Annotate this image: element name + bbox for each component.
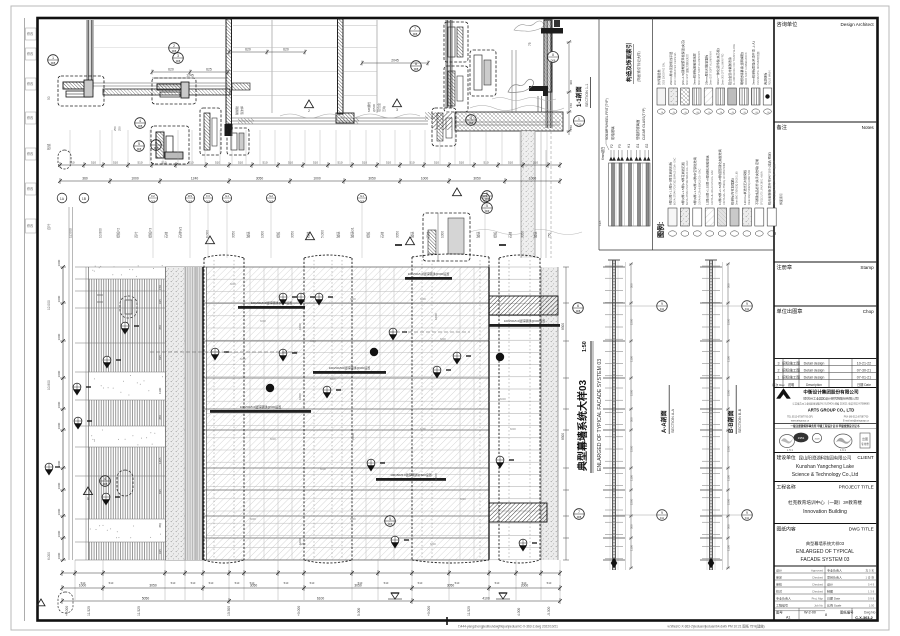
svg-text:8300: 8300 <box>561 433 565 440</box>
svg-text:450: 450 <box>158 523 162 528</box>
svg-text:1000: 1000 <box>57 422 61 429</box>
svg-text:250: 250 <box>118 126 122 131</box>
svg-text:Description: Description <box>806 383 822 387</box>
svg-text:5: 5 <box>87 497 89 501</box>
svg-text:510: 510 <box>455 581 460 585</box>
svg-text:510: 510 <box>113 161 118 165</box>
svg-text:Checked: Checked <box>812 590 823 594</box>
svg-text:比例 Scale: 比例 Scale <box>827 603 842 608</box>
svg-text:D08: D08 <box>206 200 211 203</box>
svg-text:注册章: 注册章 <box>777 263 793 271</box>
svg-text:-0.300: -0.300 <box>547 606 551 616</box>
svg-text:D08: D08 <box>414 68 419 71</box>
svg-text:620: 620 <box>168 68 174 72</box>
svg-text:D08: D08 <box>388 523 393 526</box>
svg-text:1000: 1000 <box>57 259 61 266</box>
svg-text:7: 7 <box>414 27 416 31</box>
svg-text:75: 75 <box>528 42 532 46</box>
svg-text:Omm R6Q 7100G5Q 2A68 TL6S: Omm R6Q 7100G5Q 2A68 TL6S <box>748 170 751 205</box>
svg-text:620: 620 <box>245 48 251 52</box>
svg-text:11.520: 11.520 <box>467 606 471 616</box>
svg-text:1500: 1500 <box>727 498 731 505</box>
svg-text:昆山阳澄湖科技园有限公司: 昆山阳澄湖科技园有限公司 <box>799 455 852 462</box>
svg-text:工程名称: 工程名称 <box>777 484 796 491</box>
svg-text:1: 1 <box>778 375 780 379</box>
svg-text:D08: D08 <box>413 33 418 36</box>
svg-text:1 3 8: 1 3 8 <box>868 590 875 594</box>
svg-text:250: 250 <box>113 126 117 131</box>
svg-text:设计: 设计 <box>827 582 833 587</box>
svg-text:Job No: Job No <box>814 604 823 608</box>
svg-text:G2: G2 <box>645 144 649 148</box>
svg-text:2008: 2008 <box>815 439 821 441</box>
svg-text:500: 500 <box>727 524 731 529</box>
svg-text:2mm KOMASTER CERM WL: 2mm KOMASTER CERM WL <box>674 52 677 85</box>
svg-text:6000: 6000 <box>420 297 426 301</box>
svg-text:D10: D10 <box>577 123 582 127</box>
svg-text:510: 510 <box>69 161 74 165</box>
svg-text:4100: 4100 <box>482 597 490 601</box>
svg-text:Checked: Checked <box>812 576 823 580</box>
svg-text:外饰面层类: 外饰面层类 <box>656 70 661 85</box>
svg-text:审核: 审核 <box>776 582 782 587</box>
svg-text:ALUMIN ACRE FRC TRUSS W-CNE: ALUMIN ACRE FRC TRUSS W-CNE <box>733 44 736 85</box>
svg-text:1500: 1500 <box>630 389 634 396</box>
svg-text:D08: D08 <box>103 483 108 486</box>
svg-text:1000: 1000 <box>57 370 61 377</box>
svg-text:510: 510 <box>508 161 513 165</box>
svg-text:4: 4 <box>139 119 141 123</box>
svg-text:3050: 3050 <box>473 177 481 181</box>
svg-text:3050: 3050 <box>291 231 295 238</box>
svg-text:4: 4 <box>104 477 106 481</box>
svg-text:左 5 名: 左 5 名 <box>865 569 874 573</box>
svg-text:D11: D11 <box>660 517 665 520</box>
svg-text:500: 500 <box>630 283 634 288</box>
svg-text:4.000: 4.000 <box>517 608 521 616</box>
svg-text:1B: 1B <box>82 197 87 201</box>
svg-text:510: 510 <box>171 581 176 585</box>
svg-text:07-30-21: 07-30-21 <box>857 368 871 372</box>
svg-text:t:\444-yangchengjiedilou\dwgfi: t:\444-yangchengjiedilou\dwgfilejue\jied… <box>458 625 558 629</box>
svg-text:450: 450 <box>158 325 162 330</box>
svg-text:510: 510 <box>137 161 142 165</box>
svg-text:5: 5 <box>389 517 391 521</box>
svg-text:D08: D08 <box>551 59 556 63</box>
svg-text:500: 500 <box>630 417 634 422</box>
svg-text:（原苏州工业园区设计研究院股份有限公司）: （原苏州工业园区设计研究院股份有限公司） <box>801 396 861 401</box>
svg-text:3050: 3050 <box>447 584 455 588</box>
svg-text:1495: 1495 <box>158 457 162 464</box>
svg-text:1: 1 <box>578 117 580 121</box>
svg-text:泡沫棒: 泡沫棒 <box>239 106 244 115</box>
svg-text:D08: D08 <box>225 200 230 203</box>
svg-text:10.500: 10.500 <box>227 606 231 616</box>
svg-text:100x50x5.0镀锌钢通@600设置: 100x50x5.0镀锌钢通@600设置 <box>240 404 282 409</box>
svg-text:510: 510 <box>235 581 240 585</box>
svg-text:8: 8 <box>552 53 554 57</box>
svg-text:510: 510 <box>91 161 96 165</box>
svg-text:1000: 1000 <box>57 508 61 515</box>
svg-text:D09: D09 <box>485 210 490 213</box>
svg-text:925: 925 <box>158 549 162 554</box>
svg-text:3mm 86G 750A20Q 2A18 1L65: 3mm 86G 750A20Q 2A18 1L65 <box>736 171 739 205</box>
svg-text:3050: 3050 <box>149 584 157 588</box>
svg-text:10厚(8厚+1.52厚+8厚)弧形钢化夹胶玻璃: 10厚(8厚+1.52厚+8厚)弧形钢化夹胶玻璃 <box>717 149 722 205</box>
svg-text:1000: 1000 <box>298 323 302 330</box>
svg-text:1000: 1000 <box>298 393 302 400</box>
svg-text:7: 7 <box>578 510 580 514</box>
svg-text:专业负责人: 专业负责人 <box>827 568 842 573</box>
svg-text:2045: 2045 <box>391 59 399 63</box>
svg-text:1:50: 1:50 <box>869 604 875 608</box>
svg-text:510: 510 <box>191 581 196 585</box>
svg-text:1100: 1100 <box>630 356 634 362</box>
svg-text:2mm分接格栅40(40)2m+一体F4K 蜂窝R6L: 2mm分接格栅40(40)2m+一体F4K 蜂窝R6L <box>772 159 776 205</box>
svg-text:D11: D11 <box>660 308 665 311</box>
svg-text:3050: 3050 <box>232 231 236 238</box>
svg-text:修改: 修改 <box>27 151 34 156</box>
svg-text:1000: 1000 <box>57 482 61 489</box>
svg-text:1500: 1500 <box>630 445 634 452</box>
svg-text:D08: D08 <box>483 200 488 203</box>
svg-text:1500: 1500 <box>727 389 731 396</box>
svg-text:烤漆钢板: 烤漆钢板 <box>762 73 767 85</box>
svg-text:500: 500 <box>630 524 634 529</box>
svg-text:6000: 6000 <box>310 339 316 343</box>
svg-text:1000: 1000 <box>131 177 139 181</box>
svg-text:1000: 1000 <box>57 460 61 467</box>
svg-text:8: 8 <box>415 62 417 66</box>
svg-text:1100: 1100 <box>630 475 634 481</box>
svg-text:玻璃: 玻璃 <box>246 231 251 238</box>
svg-text:9: 9 <box>661 511 663 515</box>
svg-text:1000: 1000 <box>57 333 61 340</box>
svg-text:+0.000: +0.000 <box>65 606 69 616</box>
svg-text:510: 510 <box>188 161 193 165</box>
svg-text:3050: 3050 <box>521 231 525 238</box>
svg-text:SECTION A-A: SECTION A-A <box>671 408 675 433</box>
svg-text:1 6 1: 1 6 1 <box>840 448 846 452</box>
svg-text:玻璃G1: 玻璃G1 <box>350 227 355 238</box>
svg-text:510: 510 <box>434 161 439 165</box>
svg-text:6.000: 6.000 <box>206 230 210 238</box>
svg-text:玻璃: 玻璃 <box>336 231 341 238</box>
svg-text:饰面索引: 饰面索引 <box>778 193 783 205</box>
svg-text:12A: 12A <box>598 221 602 226</box>
svg-text:6000: 6000 <box>440 337 446 341</box>
svg-text:D11: D11 <box>745 308 750 311</box>
svg-text:12GYA+8+12A+6 K15 GD+ GAC: 12GYA+8+12A+6 K15 GD+ GAC <box>711 170 714 205</box>
svg-text:W2: W2 <box>483 194 488 198</box>
svg-text:11.520: 11.520 <box>87 606 91 616</box>
svg-text:510: 510 <box>522 581 527 585</box>
svg-text:杜克教育培训中心（一期）3#教育楼: 杜克教育培训中心（一期）3#教育楼 <box>788 499 862 506</box>
svg-text:510: 510 <box>418 581 423 585</box>
svg-text:D11: D11 <box>745 517 750 520</box>
svg-text:Notes: Notes <box>862 125 875 130</box>
svg-text:Detail design: Detail design <box>804 368 825 372</box>
svg-text:1 合 格: 1 合 格 <box>865 576 874 580</box>
svg-text:50: 50 <box>47 96 51 100</box>
svg-text:ENLARGED OF TYPICAL: ENLARGED OF TYPICAL <box>796 549 854 555</box>
svg-text:2mm GST SOFT ALUMIN WH: 2mm GST SOFT ALUMIN WH <box>710 51 713 85</box>
svg-text:25mm厚石材幕墙面板: 25mm厚石材幕墙面板 <box>703 55 708 85</box>
svg-text:6000: 6000 <box>240 357 246 361</box>
svg-text:3mm GST SOFT ALUMIN WH: 3mm GST SOFT ALUMIN WH <box>698 51 701 85</box>
svg-text:Design Architect: Design Architect <box>840 22 874 27</box>
svg-text:3050: 3050 <box>396 231 400 238</box>
svg-text:铝板: 铝板 <box>493 231 498 238</box>
svg-text:3mm铝单板氟碳喷涂层: 3mm铝单板氟碳喷涂层 <box>692 53 697 85</box>
svg-text:510: 510 <box>386 161 391 165</box>
svg-text:2: 2 <box>173 44 175 48</box>
svg-text:F3: F3 <box>206 194 210 198</box>
svg-text:5: 5 <box>486 204 488 208</box>
svg-text:专业负责人: 专业负责人 <box>776 596 791 601</box>
svg-text:6000: 6000 <box>460 497 466 501</box>
svg-text:510: 510 <box>362 161 367 165</box>
svg-text:石材: 石材 <box>380 231 385 238</box>
svg-text:9: 9 <box>746 511 748 515</box>
svg-text:项目负责人: 项目负责人 <box>827 575 842 580</box>
svg-text:510: 510 <box>262 161 267 165</box>
svg-text:100x50x5.0镀锌钢通@600设置: 100x50x5.0镀锌钢通@600设置 <box>408 271 450 276</box>
svg-text:DG5 150GYKG GAL: DG5 150GYKG GAL <box>662 61 665 85</box>
svg-text:G2: G2 <box>269 194 273 198</box>
svg-text:F3: F3 <box>618 144 622 148</box>
svg-text:1100: 1100 <box>630 545 634 551</box>
svg-text:8厚(2厚+1.5厚)+5厚花岗岩石板: 8厚(2厚+1.5厚)+5厚花岗岩石板 <box>667 162 672 205</box>
svg-text:100x50x5.0镀锌钢通@600设置: 100x50x5.0镀锌钢通@600设置 <box>329 365 371 370</box>
svg-text:1000: 1000 <box>421 177 429 181</box>
svg-text:中衡设计集团股份有限公司: 中衡设计集团股份有限公司 <box>803 389 859 396</box>
svg-text:6000: 6000 <box>510 427 516 431</box>
svg-text:D08: D08 <box>154 147 159 150</box>
svg-text:6000: 6000 <box>320 467 326 471</box>
svg-text:M8螺栓: M8螺栓 <box>366 102 371 112</box>
svg-text:6000: 6000 <box>430 542 436 546</box>
svg-text:FM 2MLSTSL M3.5MM不锈钢: FM 2MLSTSL M3.5MM不锈钢 <box>756 51 760 85</box>
svg-text:D08: D08 <box>51 62 56 65</box>
svg-text:百叶: 百叶 <box>46 223 51 230</box>
svg-text:6000: 6000 <box>300 542 306 546</box>
svg-text:5: 5 <box>138 142 140 146</box>
svg-text:6: 6 <box>577 304 579 308</box>
svg-text:1000: 1000 <box>261 231 265 238</box>
svg-text:1000: 1000 <box>57 295 61 302</box>
svg-text:510: 510 <box>459 161 464 165</box>
svg-text:PROJECT TITLE: PROJECT TITLE <box>839 485 874 490</box>
svg-text:修改: 修改 <box>27 51 34 56</box>
svg-text:D08: D08 <box>138 125 143 128</box>
svg-text:510: 510 <box>238 161 243 165</box>
svg-text:625: 625 <box>206 68 212 72</box>
svg-text:1100: 1100 <box>727 475 731 481</box>
svg-text:玻璃: 玻璃 <box>533 231 538 238</box>
svg-text:G1: G1 <box>636 144 640 148</box>
svg-text:12mm+单透光石材蜂窝板: 12mm+单透光石材蜂窝板 <box>742 170 747 205</box>
svg-text:百叶: 百叶 <box>134 231 139 238</box>
svg-text:510: 510 <box>409 161 414 165</box>
svg-text:Dwg No: Dwg No <box>864 611 876 615</box>
svg-text:510: 510 <box>358 581 363 585</box>
svg-text:(饰面'索引'标记大样): (饰面'索引'标记大样) <box>636 51 641 82</box>
svg-text:D08: D08 <box>137 148 142 151</box>
svg-text:CLEAR GLASS(TYP): CLEAR GLASS(TYP) <box>642 108 646 140</box>
svg-text:6000: 6000 <box>500 397 506 401</box>
svg-text:H1: H1 <box>627 144 631 148</box>
svg-text:F2: F2 <box>151 194 155 198</box>
svg-text:D08: D08 <box>176 60 181 63</box>
svg-text:D08: D08 <box>188 200 193 203</box>
svg-text:1000: 1000 <box>57 401 61 408</box>
svg-text:10GYA-8A+15+T5%Dly 12FRBMP2068: 10GYA-8A+15+T5%Dly 12FRBMP2068 <box>723 162 726 205</box>
svg-text:510: 510 <box>384 581 389 585</box>
svg-text:Science & Technology Co.,Ltd: Science & Technology Co.,Ltd <box>792 472 859 478</box>
svg-text:铝板: 铝板 <box>276 231 281 238</box>
svg-text:510: 510 <box>81 581 86 585</box>
svg-text:510: 510 <box>161 161 166 165</box>
svg-text:校对: 校对 <box>776 589 782 594</box>
svg-text:1000: 1000 <box>434 313 438 320</box>
svg-text:510: 510 <box>209 581 214 585</box>
svg-text:20mm厚水泥砂浆找平层: 20mm厚水泥砂浆找平层 <box>668 52 673 85</box>
svg-text:1: 1 <box>52 56 54 60</box>
svg-text:6000: 6000 <box>250 517 256 521</box>
svg-text:1000: 1000 <box>441 231 445 238</box>
svg-text:日期 Date: 日期 Date <box>857 382 871 387</box>
svg-text:3050: 3050 <box>368 177 376 181</box>
svg-text:5 4 9: 5 4 9 <box>868 583 875 587</box>
svg-text:750: 750 <box>548 232 552 238</box>
svg-text:修改: 修改 <box>27 115 34 120</box>
svg-text:1GYA+8+12A+6 80A15 GD+ GAC: 1GYA+8+12A+6 80A15 GD+ GAC <box>698 168 701 205</box>
svg-text:+0.000: +0.000 <box>297 606 301 616</box>
svg-text:G1: G1 <box>360 194 364 198</box>
svg-text:G1: G1 <box>225 194 229 198</box>
svg-text:1000: 1000 <box>529 177 537 181</box>
svg-text:6GYA+2T9A4 7GM*302 80A15 GD+ G: 6GYA+2T9A4 7GM*302 80A15 GD+ GAC <box>686 160 689 205</box>
svg-text:1000: 1000 <box>57 552 61 559</box>
svg-text:6GYA+2T9A4 7GM*302 804A15 GDA+: 6GYA+2T9A4 7GM*302 804A15 GDA+ GAC <box>674 157 677 205</box>
svg-text:玻璃: 玻璃 <box>476 231 481 238</box>
svg-text:510: 510 <box>109 581 114 585</box>
svg-text:9: 9 <box>661 302 663 306</box>
svg-text:925: 925 <box>158 299 162 304</box>
svg-text:150: 150 <box>158 285 162 290</box>
svg-text:制图: 制图 <box>827 589 833 594</box>
svg-text:www.artsgroup.cn: www.artsgroup.cn <box>791 420 810 423</box>
svg-text:L 5 1: L 5 1 <box>787 448 793 452</box>
svg-text:E-mail arts@artsgroup.cn: E-mail arts@artsgroup.cn <box>843 420 870 423</box>
svg-text:铝板: 铝板 <box>366 231 371 238</box>
svg-text:版次 Rev: 版次 Rev <box>772 382 785 387</box>
svg-text:板缝: 板缝 <box>46 143 51 150</box>
svg-text:彩釉玻璃: 彩釉玻璃 <box>610 126 615 140</box>
svg-text:3mm铝单板雨篷(吊顶平顶 上人): 3mm铝单板雨篷(吊顶平顶 上人) <box>751 41 756 85</box>
svg-text:图纸编号: 图纸编号 <box>840 610 854 615</box>
svg-text:不锈钢成品栏杆(扶手夹玻璃) 定制: 不锈钢成品栏杆(扶手夹玻璃) 定制 <box>754 159 759 205</box>
svg-text:低辐射玻璃面: 低辐射玻璃面 <box>635 119 640 140</box>
svg-text:6000: 6000 <box>420 427 426 431</box>
svg-text:1000: 1000 <box>351 433 355 440</box>
svg-text:12厚(6厚+1.52厚+6厚)钢化夹胶玻璃: 12厚(6厚+1.52厚+6厚)钢化夹胶玻璃 <box>705 155 710 205</box>
svg-text:石材W1: 石材W1 <box>178 227 183 238</box>
svg-text:ROOF SOFT 1.3MWA 200F3: ROOF SOFT 1.3MWA 200F3 <box>745 52 748 85</box>
svg-text:W1: W1 <box>188 194 193 198</box>
svg-text:修改: 修改 <box>27 186 34 191</box>
svg-text:3mm GST 湿贴大理石(夹芯): 3mm GST 湿贴大理石(夹芯) <box>685 54 689 85</box>
svg-text:825: 825 <box>158 489 162 494</box>
svg-text:Approved: Approved <box>811 569 823 573</box>
svg-text:510: 510 <box>288 161 293 165</box>
svg-text:2: 2 <box>308 109 310 113</box>
svg-text:1951: 1951 <box>798 436 805 440</box>
svg-text:8: 8 <box>825 613 827 617</box>
svg-text:铝合金型材氟碳喷涂: 铝合金型材氟碳喷涂 <box>727 57 732 85</box>
svg-text:1A: 1A <box>60 197 65 201</box>
svg-text:一级注册建筑师事务所 甲级工程设计证书 甲级规划设计证书: 一级注册建筑师事务所 甲级工程设计证书 甲级规划设计证书 <box>791 424 860 428</box>
svg-text:F2: F2 <box>610 144 614 148</box>
svg-text:审定: 审定 <box>776 575 782 580</box>
svg-text:3: 3 <box>470 116 472 120</box>
svg-text:150: 150 <box>569 103 573 108</box>
svg-text:DWG TITLE: DWG TITLE <box>849 527 874 532</box>
svg-text:5050: 5050 <box>142 597 150 601</box>
svg-text:招标施工图: 招标施工图 <box>782 367 800 372</box>
svg-text:B-B剖面: B-B剖面 <box>727 410 735 433</box>
svg-text:修改: 修改 <box>27 31 34 36</box>
svg-text:2mm 300 2FT ALUMIN FRD: 2mm 300 2FT ALUMIN FRD <box>721 53 724 85</box>
svg-text:铝板F3: 铝板F3 <box>148 228 153 238</box>
svg-text:1100: 1100 <box>727 545 731 551</box>
svg-text:压块: 压块 <box>381 106 386 112</box>
svg-text:11.520: 11.520 <box>137 606 141 616</box>
svg-text:6100: 6100 <box>317 597 325 601</box>
svg-text:1:50: 1:50 <box>582 341 588 352</box>
svg-text:铝合金: 铝合金 <box>376 103 381 112</box>
svg-text:+0.000: +0.000 <box>427 606 431 616</box>
svg-text:SECTION B-B: SECTION B-B <box>738 408 742 433</box>
svg-text:9: 9 <box>746 302 748 306</box>
svg-text:1500: 1500 <box>630 318 634 325</box>
svg-text:明框玻璃幕墙(竖明横隐): 明框玻璃幕墙(竖明横隐) <box>739 52 744 85</box>
svg-text:510: 510 <box>533 161 538 165</box>
svg-text:1000: 1000 <box>434 473 438 480</box>
svg-text:TEL 0512-67587700 (5F): TEL 0512-67587700 (5F) <box>787 417 813 419</box>
svg-text:ARTS GROUP CO., LTD: ARTS GROUP CO., LTD <box>808 408 855 413</box>
svg-text:C-X-363-2: C-X-363-2 <box>855 616 873 620</box>
svg-text:1500: 1500 <box>727 445 731 452</box>
svg-text:1-1剖面: 1-1剖面 <box>575 86 583 107</box>
svg-text:250: 250 <box>569 125 573 130</box>
svg-text:510: 510 <box>337 161 342 165</box>
svg-text:Chop: Chop <box>863 309 874 314</box>
svg-text:Kunshan Yangcheng Lake: Kunshan Yangcheng Lake <box>796 464 854 470</box>
svg-text:ENLARGED OF TYPICAL FACADE SYS: ENLARGED OF TYPICAL FACADE SYSTEM 03 <box>597 359 603 471</box>
svg-text:耐候胶: 耐候胶 <box>234 106 239 115</box>
svg-text:修改: 修改 <box>27 223 34 228</box>
svg-text:1245: 1245 <box>186 74 194 78</box>
svg-text:10.800: 10.800 <box>47 380 51 390</box>
svg-text:D08: D08 <box>469 122 474 125</box>
svg-text:Stamp: Stamp <box>860 265 874 270</box>
svg-text:D08: D08 <box>269 200 274 203</box>
svg-text:3: 3 <box>177 54 179 58</box>
svg-text:[2m+1.5]钢骨架聚苯板保温(夹芯): [2m+1.5]钢骨架聚苯板保温(夹芯) <box>680 40 685 85</box>
svg-text:400: 400 <box>569 80 573 85</box>
